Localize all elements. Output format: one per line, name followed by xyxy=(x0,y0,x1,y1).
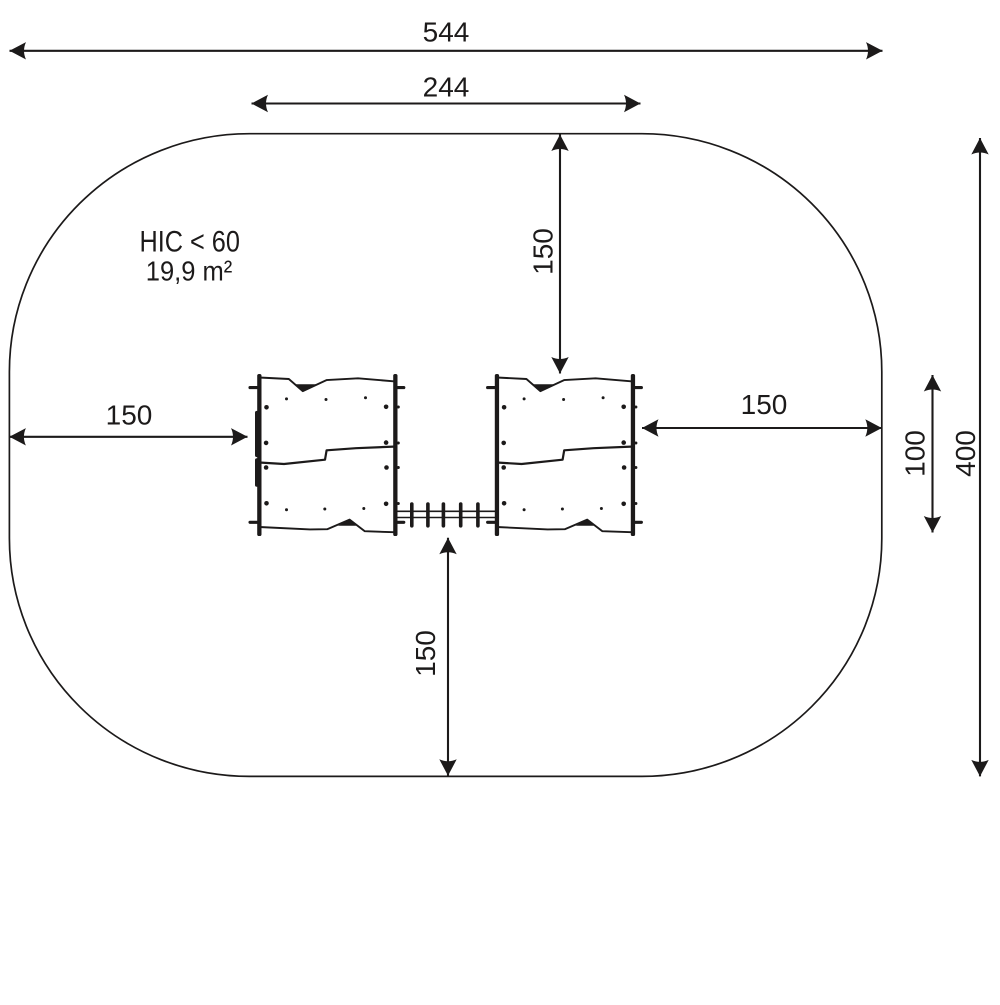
panel bottom edge xyxy=(259,520,393,533)
panel left post xyxy=(257,374,261,536)
panel top edge xyxy=(259,378,393,392)
ladder rung 1 xyxy=(410,504,414,526)
svg-text:150: 150 xyxy=(410,630,441,677)
right post top stub xyxy=(396,386,404,389)
ladder rail upper xyxy=(397,510,495,512)
play panel right (copy of left, shifted) xyxy=(488,374,642,536)
dimension 150 top vertical arrow xyxy=(559,135,561,374)
left panel left-post overlay board edge upper xyxy=(255,411,259,457)
ladder rung 4 xyxy=(459,504,463,526)
left post bottom stub xyxy=(250,521,259,524)
panel middle divider xyxy=(259,447,393,464)
dimension 100 right vertical arrow xyxy=(931,375,933,533)
small dots bottom row xyxy=(285,508,288,511)
top notch fill xyxy=(296,384,318,391)
svg-text:100: 100 xyxy=(900,430,931,477)
dimension 544 arrow xyxy=(10,50,883,52)
svg-text:544: 544 xyxy=(423,17,470,48)
svg-text:HIC < 60: HIC < 60 xyxy=(139,225,240,258)
dimension 150 left horizontal arrow xyxy=(9,436,247,438)
right post bottom stub xyxy=(396,521,404,524)
svg-text:150: 150 xyxy=(106,400,153,431)
svg-text:19,9 m²: 19,9 m² xyxy=(146,256,233,287)
ladder rung 2 xyxy=(426,504,430,526)
bottom bump fill xyxy=(338,520,356,526)
right post nubs xyxy=(397,406,400,409)
dimension 244 arrow xyxy=(252,102,641,104)
left post top stub xyxy=(250,386,259,389)
dimension 400 right vertical arrow xyxy=(979,138,981,776)
safety zone outline xyxy=(9,134,881,777)
small dots top row xyxy=(285,397,288,400)
ladder rung 5 xyxy=(476,504,480,526)
panel right post xyxy=(393,374,397,536)
dimension 150 bottom vertical arrow xyxy=(447,538,449,776)
bolt dots right column xyxy=(384,405,389,410)
ladder rail lower xyxy=(397,517,495,519)
ladder rung 3 xyxy=(442,504,446,526)
bolt dots left column xyxy=(264,405,269,410)
dimension 150 right horizontal arrow xyxy=(642,427,882,429)
play panel left xyxy=(250,374,404,536)
left panel left-post overlay board edge lower xyxy=(255,458,259,487)
svg-text:150: 150 xyxy=(528,228,559,275)
svg-text:150: 150 xyxy=(741,389,788,420)
svg-text:400: 400 xyxy=(950,430,981,477)
svg-text:244: 244 xyxy=(423,72,470,103)
